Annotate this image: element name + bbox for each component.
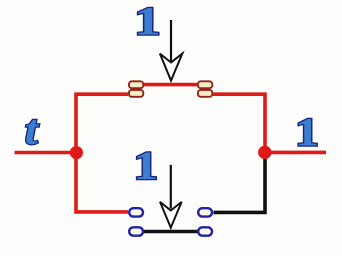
- arrow bottom hollow head: [160, 202, 182, 228]
- node right junction: [258, 146, 271, 159]
- open contact S3 left, upper plate: [129, 208, 143, 216]
- arrow bottom shaft: [170, 165, 172, 209]
- svg-text:1: 1: [134, 0, 161, 44]
- open contact S4 right, upper plate: [198, 208, 212, 216]
- node left junction: [70, 146, 83, 159]
- closed contact S2 right, lower plate: [198, 90, 212, 97]
- svg-text:1: 1: [133, 143, 158, 187]
- closed contact S1 left, lower plate: [129, 90, 143, 97]
- svg-text:1: 1: [295, 110, 319, 154]
- svg-text:t: t: [25, 106, 40, 153]
- wire top-right: from right contact down to node: [213, 94, 265, 150]
- arrow top hollow head: [160, 54, 182, 81]
- open contact S4 right, lower plate: [198, 227, 212, 235]
- wire top middle segment between closed contacts: [144, 83, 198, 87]
- wire left input stub (t): [15, 151, 77, 155]
- wire left branch: top-left corner, left vertical, bottom-left corner: [76, 94, 128, 212]
- closed contact S1 left, upper plate: [129, 81, 143, 88]
- wire black bottom middle segment between open contacts: [144, 230, 198, 234]
- closed contact S2 right, upper plate: [198, 81, 212, 88]
- arrow top shaft: [170, 20, 172, 62]
- open contact S3 left, lower plate: [129, 227, 143, 235]
- wire black right branch down to bottom-right contact: [214, 155, 266, 212]
- wire right output stub (1): [265, 151, 326, 155]
